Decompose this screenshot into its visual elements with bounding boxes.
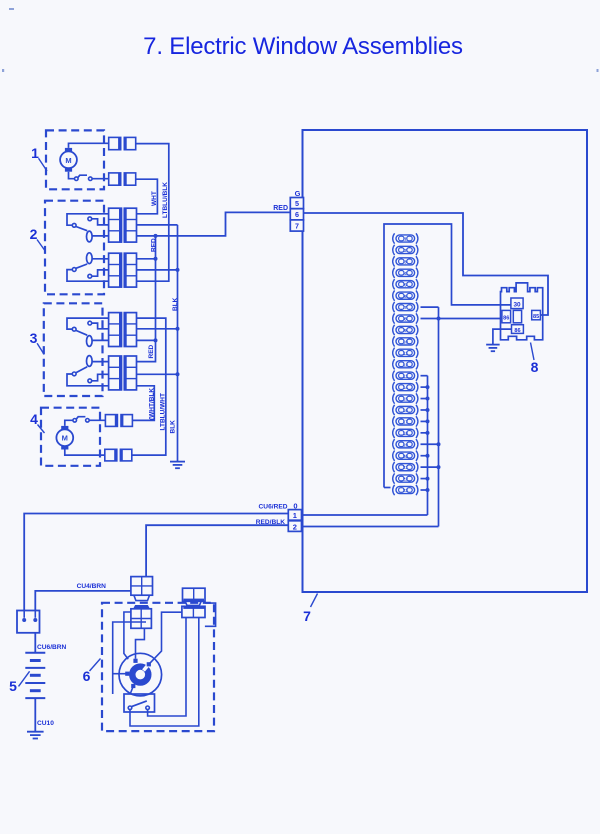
svg-text:21: 21 [403,465,409,470]
svg-text:RED: RED [151,238,158,252]
svg-text:LTBLU/WHT: LTBLU/WHT [159,393,166,430]
svg-text:5: 5 [404,282,407,287]
svg-text:3: 3 [30,330,38,346]
svg-text:1: 1 [293,511,297,520]
svg-text:BLK: BLK [172,297,179,311]
svg-text:86: 86 [514,328,520,334]
svg-text:3: 3 [404,259,407,264]
svg-text:M: M [62,434,68,443]
svg-text:18: 18 [403,431,409,436]
svg-text:12: 12 [403,362,409,367]
svg-text:15: 15 [403,397,409,402]
svg-text:CU6/BRN: CU6/BRN [37,644,67,651]
svg-text:22: 22 [403,477,409,482]
svg-text:19: 19 [403,442,409,447]
svg-text:85: 85 [533,314,539,320]
svg-text:CU6/RED: CU6/RED [259,504,288,511]
svg-text:6: 6 [295,210,299,219]
svg-text:2: 2 [404,248,407,253]
svg-text:6: 6 [404,294,407,299]
svg-text:4: 4 [404,271,407,276]
svg-text:8: 8 [531,359,539,375]
svg-text:30: 30 [513,301,521,308]
svg-text:5: 5 [295,199,299,208]
svg-text:7. Electric Window Assemblies: 7. Electric Window Assemblies [143,33,463,60]
svg-text:9: 9 [404,328,407,333]
svg-text:8: 8 [404,317,407,322]
svg-text:2: 2 [30,226,38,242]
svg-text:7: 7 [404,305,407,310]
svg-text:1: 1 [31,145,39,161]
svg-text:CU4/BRN: CU4/BRN [77,583,107,590]
svg-text:23: 23 [403,488,409,493]
svg-text:(WHT/BLK: (WHT/BLK [149,388,156,420]
svg-text:17: 17 [403,420,409,425]
svg-text:WHT: WHT [151,191,158,206]
svg-text:86: 86 [503,315,509,321]
svg-text:BLK: BLK [170,420,177,434]
svg-text:13: 13 [403,374,409,379]
svg-text:16: 16 [403,408,409,413]
svg-text:4: 4 [30,411,38,427]
svg-text:RED: RED [273,205,288,212]
svg-text:RED: RED [148,344,155,358]
svg-text:20: 20 [403,454,409,459]
svg-text:10: 10 [403,339,409,344]
svg-text:G: G [295,189,301,198]
svg-text:7: 7 [295,221,299,230]
svg-text:7: 7 [303,608,311,624]
svg-text:LTBLU/BLK: LTBLU/BLK [162,182,169,218]
svg-text:14: 14 [403,385,409,390]
svg-text:M: M [65,156,71,165]
svg-text:1: 1 [404,237,407,242]
svg-text:2: 2 [293,522,297,531]
svg-text:11: 11 [403,351,408,356]
svg-text:5: 5 [9,678,17,694]
svg-text:CU10: CU10 [37,720,54,727]
svg-text:0: 0 [293,501,297,510]
